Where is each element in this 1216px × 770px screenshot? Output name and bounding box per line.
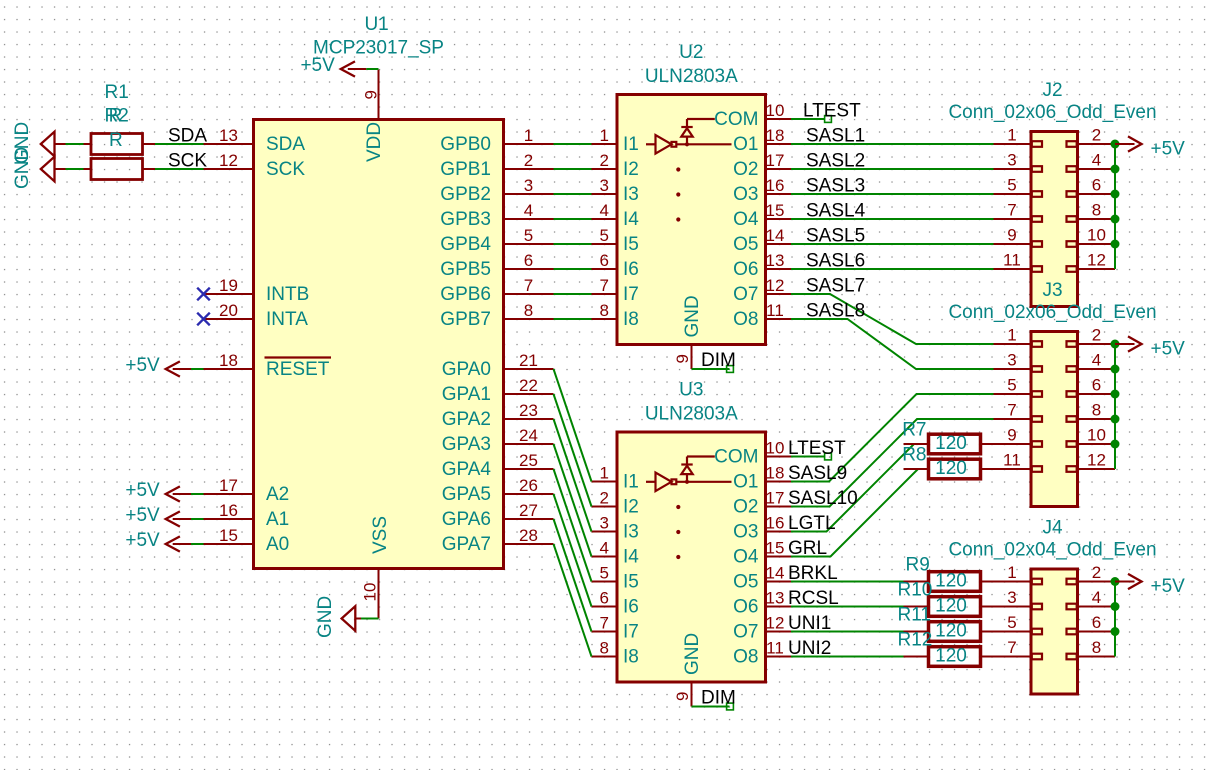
U3 flyback diode: [681, 457, 715, 484]
svg-text:O7: O7: [733, 284, 758, 305]
svg-text:7: 7: [1007, 401, 1016, 420]
U2 pin 5 I5: [592, 226, 639, 255]
svg-text:11: 11: [766, 639, 784, 658]
resistor R10 120: [898, 580, 1032, 617]
svg-text:GPA3: GPA3: [442, 434, 491, 455]
svg-text:1: 1: [1007, 126, 1016, 145]
svg-text:4: 4: [600, 201, 609, 220]
svg-text:5: 5: [600, 226, 609, 245]
svg-text:A0: A0: [266, 534, 289, 555]
svg-text:17: 17: [766, 151, 785, 170]
wire GND to R2: [66, 168, 84, 170]
svg-text:A2: A2: [266, 484, 289, 505]
svg-text:120: 120: [935, 620, 967, 641]
svg-text:5: 5: [1007, 613, 1016, 632]
svg-text:+5V: +5V: [1151, 139, 1186, 160]
node DIM at U2: [727, 366, 734, 373]
U2 pin 17 O2: [733, 151, 791, 180]
U1 pin 1 GPB0: [440, 126, 553, 155]
transistor-array U2 body: [617, 95, 766, 345]
junction J3 pin 2: [1111, 340, 1120, 349]
svg-text:U2: U2: [679, 42, 703, 63]
svg-text:R2: R2: [105, 106, 129, 127]
U3 pin 4 I4: [592, 539, 640, 568]
wire +5V to A0: [191, 543, 204, 545]
junction J3 pin 8: [1111, 415, 1120, 424]
U3 pin 15 O4: [733, 539, 791, 568]
svg-text:O2: O2: [733, 497, 758, 518]
svg-text:SASL9: SASL9: [788, 463, 847, 484]
svg-text:+5V: +5V: [300, 55, 335, 76]
svg-text:12: 12: [1087, 251, 1106, 270]
wire U2 GND to DIM: [692, 368, 730, 370]
U2 buffer symbol: [646, 135, 732, 154]
wire GPB5 to U2 I6: [554, 268, 592, 270]
svg-text:SDA: SDA: [266, 134, 305, 155]
U2 pin 18 O1: [733, 126, 791, 155]
wire U3 BRKL to resistor: [791, 581, 904, 583]
wire GPA4 to U3 I5: [554, 469, 592, 582]
svg-text:22: 22: [519, 376, 538, 395]
svg-text:5: 5: [1007, 176, 1016, 195]
U2 pin 6 I6: [592, 251, 639, 280]
svg-text:+5V: +5V: [125, 530, 160, 551]
svg-text:UNI2: UNI2: [788, 638, 831, 659]
svg-text:O2: O2: [733, 159, 758, 180]
svg-text:12: 12: [766, 276, 785, 295]
J3 pin 11: [994, 451, 1043, 472]
wire GPA0 to U3 I1: [554, 369, 592, 482]
svg-text:SASL3: SASL3: [806, 176, 865, 197]
wire J3 +5V bus: [1114, 344, 1116, 469]
svg-text:12: 12: [219, 151, 238, 170]
svg-text:6: 6: [1092, 376, 1101, 395]
power +5V at J2: [1115, 136, 1185, 159]
svg-text:8: 8: [1092, 401, 1101, 420]
svg-text:Conn_02x06_Odd_Even: Conn_02x06_Odd_Even: [948, 102, 1156, 123]
svg-text:4: 4: [524, 201, 533, 220]
svg-text:18: 18: [766, 464, 785, 483]
svg-text:8: 8: [1092, 638, 1101, 657]
svg-text:GND: GND: [12, 147, 33, 189]
svg-text:10: 10: [1087, 226, 1106, 245]
J2 pin 2: [1067, 126, 1116, 147]
svg-text:28: 28: [519, 526, 538, 545]
svg-text:16: 16: [766, 514, 785, 533]
svg-text:9: 9: [673, 354, 692, 363]
svg-text:I2: I2: [623, 159, 639, 180]
svg-text:15: 15: [219, 526, 238, 545]
U3 pin 5 I5: [592, 564, 639, 593]
J4 pin 7: [994, 638, 1043, 659]
junction J2 pin 10: [1111, 240, 1120, 249]
svg-text:SASL1: SASL1: [806, 126, 865, 147]
U2 pin 4 I4: [592, 201, 640, 230]
wire U2 LTEST stub: [791, 118, 825, 120]
junction J4 pin 4: [1111, 602, 1120, 611]
J4 pin 5: [994, 613, 1043, 634]
svg-text:U3: U3: [679, 380, 703, 401]
node LTEST at U2: [825, 116, 832, 123]
power GND at R1: [12, 122, 66, 164]
wire J2 +5V bus: [1114, 144, 1116, 269]
U2 pin 1 I1: [592, 126, 639, 155]
svg-text:R12: R12: [898, 630, 933, 651]
svg-text:ULN2803A: ULN2803A: [645, 404, 738, 425]
svg-text:2: 2: [600, 489, 609, 508]
wire GPB2 to U2 I3: [554, 193, 592, 195]
svg-text:O6: O6: [733, 259, 758, 280]
connector J2 body: [1031, 132, 1078, 307]
U1 pin 5 GPB4: [440, 226, 553, 255]
svg-text:UNI1: UNI1: [788, 613, 831, 634]
svg-text:19: 19: [219, 276, 238, 295]
svg-text:3: 3: [600, 514, 609, 533]
U2 pin 14 O5: [733, 226, 791, 255]
power GND at R2: [12, 147, 66, 189]
svg-text:9: 9: [1007, 426, 1016, 445]
svg-text:13: 13: [219, 126, 238, 145]
U1 pin 12 SCK: [204, 151, 306, 180]
wire U3 UNI2 to resistor: [791, 656, 904, 658]
U3 pin 14 O5: [733, 564, 791, 593]
svg-text:O1: O1: [733, 134, 758, 155]
wire U2 O5 to J2 pin 9 SASL5: [791, 243, 994, 245]
svg-text:GPA1: GPA1: [442, 384, 491, 405]
U1 pin 24 GPA3: [442, 426, 554, 455]
svg-text:DIM: DIM: [701, 688, 736, 709]
svg-text:O6: O6: [733, 597, 758, 618]
svg-text:1: 1: [1007, 326, 1016, 345]
svg-text:SASL10: SASL10: [788, 488, 858, 509]
U2 pin 7 I7: [592, 276, 639, 305]
svg-text:I5: I5: [623, 234, 639, 255]
svg-text:4: 4: [1092, 588, 1101, 607]
svg-text:7: 7: [1007, 201, 1016, 220]
resistor R8 120: [902, 445, 1031, 479]
resistor R12 120: [898, 630, 1032, 667]
wire GPA3 to U3 I4: [554, 444, 592, 557]
svg-text:GPB0: GPB0: [440, 134, 491, 155]
wire R2 to U1 SCK: [155, 168, 204, 170]
J3 pin 9: [994, 426, 1043, 447]
svg-text:+5V: +5V: [125, 505, 160, 526]
svg-text:25: 25: [519, 451, 538, 470]
svg-text:8: 8: [524, 301, 533, 320]
svg-text:GPB4: GPB4: [440, 234, 491, 255]
svg-text:I7: I7: [623, 284, 639, 305]
svg-text:10: 10: [766, 101, 785, 120]
svg-text:10: 10: [1087, 426, 1106, 445]
svg-text:9: 9: [362, 90, 381, 99]
svg-text:J2: J2: [1042, 80, 1062, 101]
svg-text:GPA0: GPA0: [442, 359, 491, 380]
U2 pin 9 GND: [673, 295, 703, 369]
svg-text:3: 3: [524, 176, 533, 195]
svg-text:10: 10: [361, 583, 380, 602]
node LTEST at U3: [825, 453, 832, 460]
svg-text:COM: COM: [714, 109, 758, 130]
U3 pin 17 O2: [733, 489, 791, 518]
U2 pin 15 O4: [733, 201, 791, 230]
J3 pin 2: [1067, 326, 1116, 347]
U1 pin 6 GPB5: [440, 251, 553, 280]
J3 pin 3: [994, 351, 1043, 372]
U3 pin 2 I2: [592, 489, 639, 518]
junction J2 pin 8: [1111, 215, 1120, 224]
J3 pin 1: [994, 326, 1043, 347]
svg-text:13: 13: [766, 589, 785, 608]
wire GPB4 to U2 I5: [554, 243, 592, 245]
svg-text:7: 7: [600, 276, 609, 295]
power GND at U1 VSS: [315, 596, 361, 638]
svg-text:7: 7: [600, 614, 609, 633]
svg-text:Conn_02x06_Odd_Even: Conn_02x06_Odd_Even: [948, 302, 1156, 323]
wire U3 SASL10 to J3 pin 7: [791, 419, 994, 507]
svg-text:GPB2: GPB2: [440, 184, 491, 205]
J3 pin 4: [1067, 351, 1116, 372]
U1 pin 22 GPA1: [442, 376, 554, 405]
wire GPA7 to U3 I8: [554, 544, 592, 657]
wire R1 to U1 SDA: [155, 143, 204, 145]
J4 pin 2: [1067, 563, 1116, 584]
svg-text:GPA2: GPA2: [442, 409, 491, 430]
svg-text:2: 2: [1092, 126, 1101, 145]
svg-text:4: 4: [1092, 151, 1101, 170]
J4 pin 6: [1067, 613, 1116, 634]
connector J3 body: [1031, 332, 1078, 507]
svg-text:+5V: +5V: [125, 480, 160, 501]
wire VSS to GND: [361, 618, 379, 620]
svg-text:I3: I3: [623, 522, 639, 543]
svg-text:8: 8: [600, 639, 609, 658]
wire U2 O4 to J2 pin 7 SASL4: [791, 218, 994, 220]
svg-text:GND: GND: [315, 596, 336, 638]
wire U2 O6 to J2 pin 11 SASL6: [791, 268, 994, 270]
power +5V at A1: [125, 505, 191, 527]
J2 pin 5: [994, 176, 1043, 197]
power +5V at RESET: [125, 355, 191, 377]
U1 pin 4 GPB3: [440, 201, 553, 230]
svg-text:SASL2: SASL2: [806, 151, 865, 172]
IC U1 MCP23017_SP body: [254, 120, 504, 569]
svg-text:GPB7: GPB7: [440, 309, 491, 330]
svg-text:14: 14: [766, 564, 785, 583]
svg-text:9: 9: [673, 692, 692, 701]
svg-text:VSS: VSS: [370, 516, 391, 554]
svg-text:12: 12: [766, 614, 785, 633]
U1 pin 21 GPA0: [442, 351, 554, 380]
svg-text:RESET: RESET: [266, 359, 330, 380]
svg-text:12: 12: [1087, 451, 1106, 470]
svg-text:6: 6: [600, 251, 609, 270]
wire GPB6 to U2 I7: [554, 293, 592, 295]
svg-text:R8: R8: [902, 445, 926, 466]
U1 pin 15 A0: [204, 526, 290, 555]
U3 pin 7 I7: [592, 614, 639, 643]
connector J4 body: [1031, 569, 1078, 694]
U1 pin 3 GPB2: [440, 176, 553, 205]
svg-text:SDA: SDA: [168, 126, 207, 147]
svg-text:I3: I3: [623, 184, 639, 205]
svg-text:I8: I8: [623, 647, 639, 668]
J4 pin 1: [994, 563, 1043, 584]
wire GPA6 to U3 I7: [554, 519, 592, 632]
svg-text:13: 13: [766, 251, 785, 270]
svg-text:4: 4: [1092, 351, 1101, 370]
J4 pin 3: [994, 588, 1043, 609]
wire U3 GND to DIM: [692, 706, 730, 708]
J2 pin 6: [1067, 176, 1116, 197]
svg-text:1: 1: [524, 126, 533, 145]
wire GND to R1: [66, 143, 84, 145]
svg-text:R11: R11: [898, 605, 931, 626]
svg-text:11: 11: [766, 301, 784, 320]
svg-text:SCK: SCK: [168, 151, 207, 172]
resistor R1: [55, 82, 254, 155]
svg-text:6: 6: [1092, 176, 1101, 195]
svg-text:4: 4: [600, 539, 609, 558]
svg-text:O1: O1: [733, 472, 758, 493]
svg-text:120: 120: [935, 645, 967, 666]
svg-text:R7: R7: [902, 420, 926, 441]
U1 pin 17 A2: [204, 476, 290, 505]
J2 pin 11: [994, 251, 1043, 272]
svg-text:24: 24: [519, 426, 538, 445]
wire +5V to VDD: [366, 68, 378, 70]
no-connect INTA: [197, 313, 210, 326]
svg-text:14: 14: [766, 226, 785, 245]
U3 pin 6 I6: [592, 589, 639, 618]
U3 pin 16 O3: [733, 514, 791, 543]
power +5V at A0: [125, 530, 191, 552]
svg-text:U1: U1: [364, 14, 388, 35]
J3 pin 10: [1067, 426, 1116, 447]
wire U3 GRL to R8: [791, 469, 918, 557]
wire U3 LTEST stub: [791, 456, 825, 458]
svg-text:9: 9: [1007, 226, 1016, 245]
junction J3 pin 6: [1111, 390, 1120, 399]
svg-text:RCSL: RCSL: [788, 588, 839, 609]
wire U3 RCSL to resistor: [791, 606, 904, 608]
svg-text:O4: O4: [733, 547, 759, 568]
U3 pin 12 O7: [733, 614, 791, 643]
power +5V at A2: [125, 480, 191, 502]
svg-text:COM: COM: [714, 447, 758, 468]
J2 pin 8: [1067, 201, 1116, 222]
svg-text:2: 2: [524, 151, 533, 170]
svg-text:O8: O8: [733, 647, 758, 668]
wire GPB0 to U2 I1: [554, 143, 592, 145]
wire U3 LGTL to R7: [791, 444, 914, 532]
no-connect INTB: [197, 288, 210, 301]
J2 pin 3: [994, 151, 1043, 172]
svg-text:+5V: +5V: [125, 355, 160, 376]
wire J4 +5V bus: [1114, 582, 1116, 657]
svg-text:27: 27: [519, 501, 538, 520]
svg-text:15: 15: [766, 539, 785, 558]
svg-text:GPB5: GPB5: [440, 259, 491, 280]
svg-text:LTEST: LTEST: [788, 438, 846, 459]
U2 pin 2 I2: [592, 151, 639, 180]
svg-text:1: 1: [600, 126, 609, 145]
svg-text:R: R: [109, 130, 123, 151]
svg-text:3: 3: [1007, 151, 1016, 170]
svg-text:17: 17: [766, 489, 785, 508]
resistor R11 120: [898, 605, 1032, 642]
svg-text:O8: O8: [733, 309, 758, 330]
wire GPA1 to U3 I2: [554, 394, 592, 507]
wire +5V to RESET: [191, 368, 204, 370]
wire GPB7 to U2 I8: [554, 318, 592, 320]
svg-text:SASL7: SASL7: [806, 276, 865, 297]
J2 pin 9: [994, 226, 1043, 247]
svg-text:11: 11: [1003, 451, 1021, 470]
U1 pin 9 VDD: [362, 70, 386, 163]
svg-text:GPA4: GPA4: [442, 459, 492, 480]
U3 pin 3 I3: [592, 514, 639, 543]
svg-text:5: 5: [524, 226, 533, 245]
U3 repeat dots: [676, 505, 680, 559]
svg-text:GPA6: GPA6: [442, 509, 491, 530]
U3 pin 9 GND: [673, 633, 703, 707]
svg-text:I6: I6: [623, 597, 639, 618]
junction J3 pin 10: [1111, 440, 1120, 449]
junction J2 pin 2: [1111, 140, 1120, 149]
svg-text:8: 8: [1092, 201, 1101, 220]
svg-text:10: 10: [766, 439, 785, 458]
U2 pin 11 O8: [733, 301, 791, 330]
wire U2 O2 to J2 pin 3 SASL2: [791, 168, 994, 170]
svg-text:5: 5: [600, 564, 609, 583]
J3 pin 8: [1067, 401, 1116, 422]
wire U2 O7 to J3 pin 1 SASL7: [791, 294, 994, 344]
svg-text:6: 6: [524, 251, 533, 270]
svg-text:SCK: SCK: [266, 159, 305, 180]
U1 pin 8 GPB7: [440, 301, 553, 330]
svg-text:18: 18: [766, 126, 785, 145]
J2 pin 12: [1067, 251, 1116, 272]
svg-text:11: 11: [1003, 251, 1021, 270]
svg-text:120: 120: [935, 595, 967, 616]
svg-text:O5: O5: [733, 572, 758, 593]
svg-text:INTA: INTA: [266, 309, 308, 330]
junction J3 pin 4: [1111, 365, 1120, 374]
svg-text:6: 6: [600, 589, 609, 608]
J4 pin 8: [1067, 638, 1116, 659]
U1 pin 27 GPA6: [442, 501, 554, 530]
svg-text:O3: O3: [733, 522, 758, 543]
svg-text:3: 3: [600, 176, 609, 195]
U2 pin 16 O3: [733, 176, 791, 205]
wire U2 O1 to J2 pin 1 SASL1: [791, 143, 994, 145]
U1 pin 7 GPB6: [440, 276, 553, 305]
svg-text:LGTL: LGTL: [788, 513, 836, 534]
U1 pin 2 GPB1: [440, 151, 553, 180]
svg-text:O5: O5: [733, 234, 758, 255]
svg-text:GPB1: GPB1: [440, 159, 491, 180]
junction J2 pin 4: [1111, 165, 1120, 174]
node DIM at U3: [727, 703, 734, 710]
svg-text:I6: I6: [623, 259, 639, 280]
J2 pin 4: [1067, 151, 1116, 172]
U1 pin 28 GPA7: [442, 526, 554, 555]
svg-text:+5V: +5V: [1151, 576, 1186, 597]
svg-text:A1: A1: [266, 509, 289, 530]
resistor R2: [55, 106, 254, 180]
J2 pin 10: [1067, 226, 1116, 247]
svg-text:5: 5: [1007, 376, 1016, 395]
